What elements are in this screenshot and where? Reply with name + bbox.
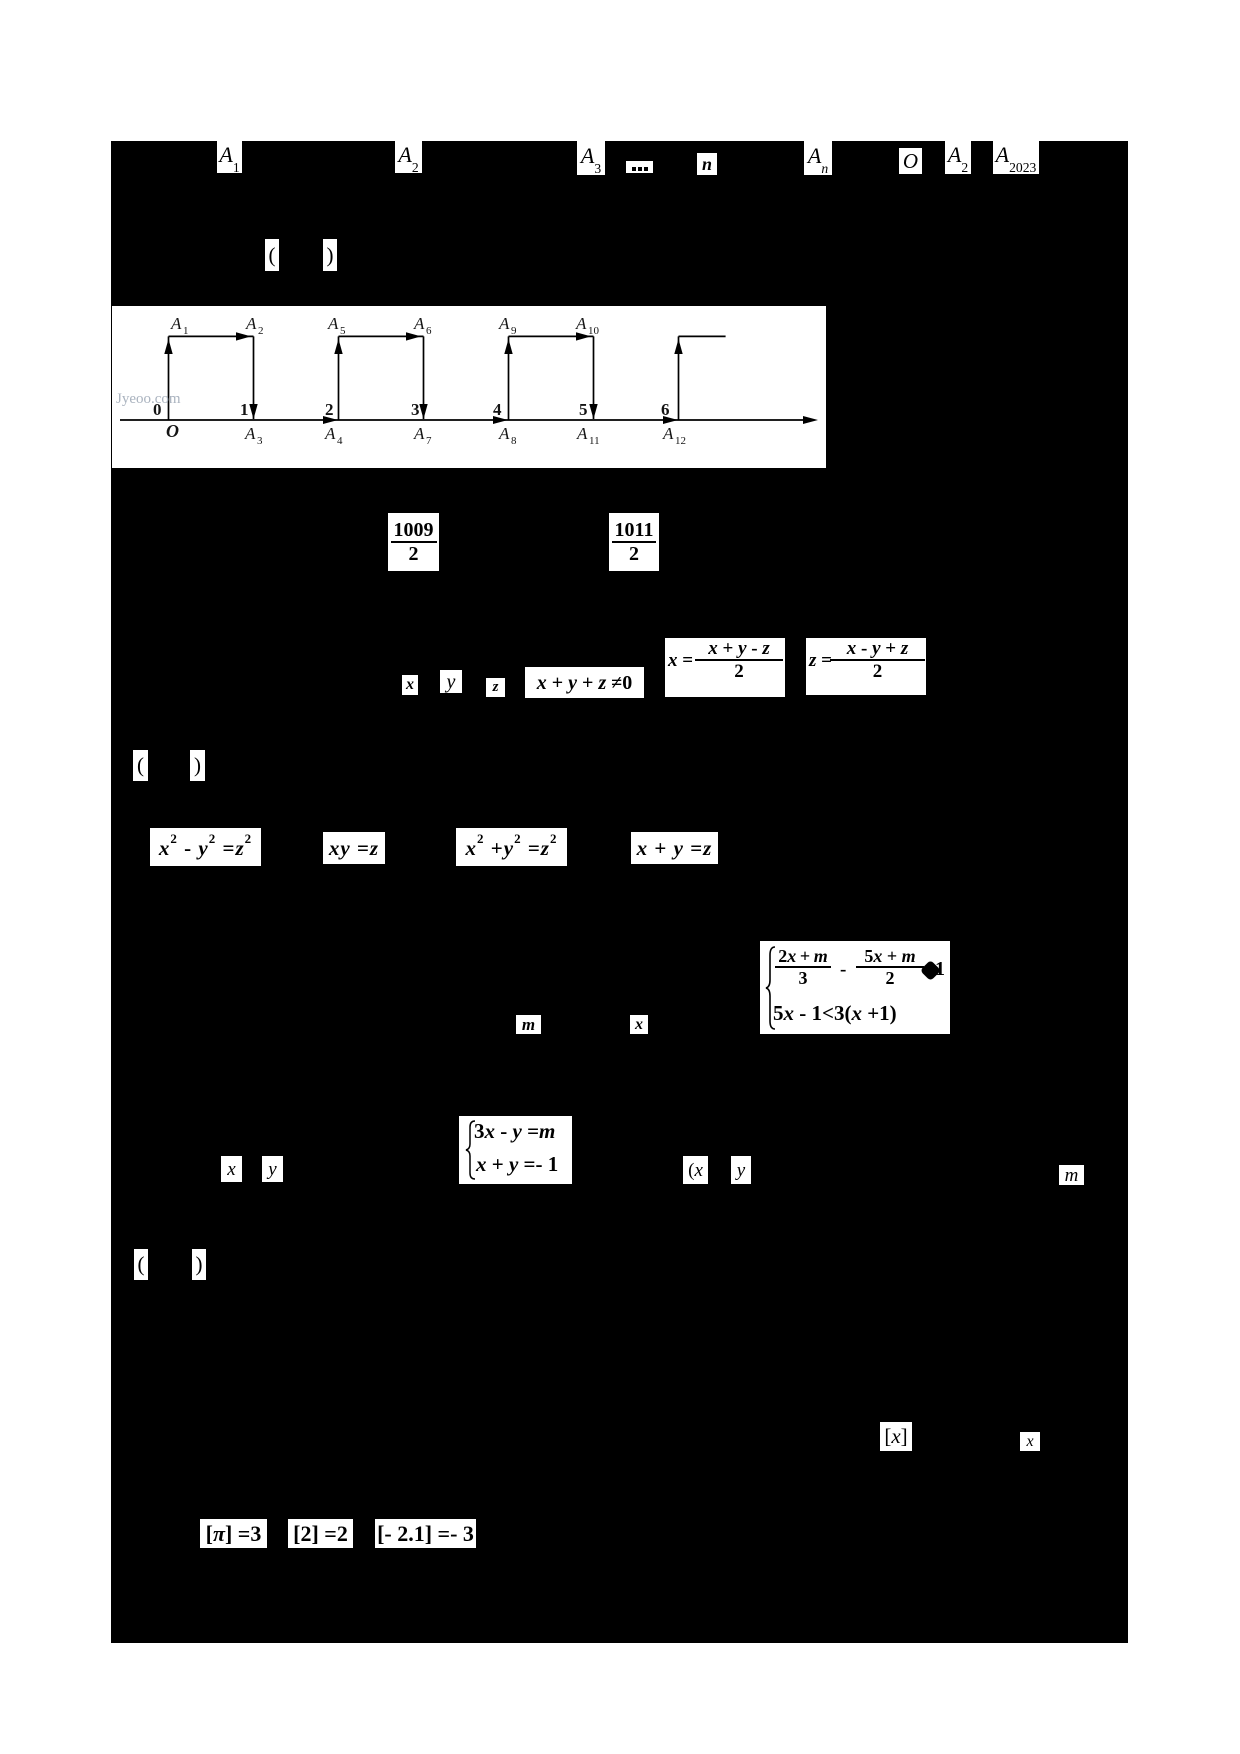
svg-text:A: A: [244, 424, 256, 443]
svg-text:1: 1: [183, 325, 189, 337]
axis move arrowheads: [323, 416, 338, 424]
svg-text:A: A: [575, 314, 587, 333]
svg-text:A: A: [327, 314, 339, 333]
equation options row: [150, 828, 261, 866]
svg-text:A: A: [576, 424, 588, 443]
top horizontals: [169, 335, 254, 337]
svg-text:6: 6: [426, 325, 432, 337]
svg-text:9: 9: [511, 325, 517, 337]
svg-text:0: 0: [153, 400, 162, 419]
svg-text:4: 4: [337, 435, 343, 447]
answer parens row 2: [133, 750, 148, 781]
svg-text:A: A: [662, 424, 674, 443]
svg-text:A: A: [324, 424, 336, 443]
svg-text:5: 5: [340, 325, 346, 337]
svg-text:1: 1: [240, 400, 249, 419]
svg-text:2: 2: [258, 325, 264, 337]
svg-text:A: A: [413, 424, 425, 443]
bracket value islands: [200, 1519, 267, 1548]
m and x small islands: [516, 1015, 541, 1034]
svg-text:A: A: [498, 424, 510, 443]
svg-text:3: 3: [257, 435, 263, 447]
axis arrowhead: [803, 416, 818, 424]
svg-text:6: 6: [661, 400, 670, 419]
x y z row: [402, 675, 418, 695]
svg-text:7: 7: [426, 435, 432, 447]
svg-text:A: A: [498, 314, 510, 333]
svg-text:A: A: [170, 314, 182, 333]
risers up: [168, 336, 170, 420]
answer parens row 3: [134, 1249, 148, 1280]
svg-text:A: A: [245, 314, 257, 333]
top horizontal arrowheads: [236, 332, 251, 340]
svg-text:10: 10: [588, 325, 600, 337]
svg-text:O: O: [166, 421, 179, 441]
diagram: [112, 306, 826, 468]
answer parens row 1: [265, 239, 279, 271]
inequality system box: [760, 941, 950, 1034]
down arrowheads: [249, 404, 257, 419]
axis: [120, 419, 812, 421]
svg-text:2: 2: [325, 400, 334, 419]
svg-text:8: 8: [511, 435, 517, 447]
svg-text:A: A: [413, 314, 425, 333]
top row formula islands: [217, 141, 242, 173]
svg-text:Jyeoo.com: Jyeoo.com: [116, 391, 181, 407]
[x] and x islands: [880, 1422, 912, 1451]
fraction islands 1009/2 1011/2: [388, 513, 439, 571]
svg-text:3: 3: [411, 400, 420, 419]
svg-text:5: 5: [579, 400, 588, 419]
x y islands: [221, 1156, 242, 1182]
up arrowheads: [164, 339, 172, 354]
svg-text:11: 11: [589, 435, 600, 447]
down risers: [253, 336, 255, 419]
linear system box: [459, 1116, 572, 1184]
svg-text:4: 4: [493, 400, 502, 419]
svg-text:12: 12: [675, 435, 686, 447]
